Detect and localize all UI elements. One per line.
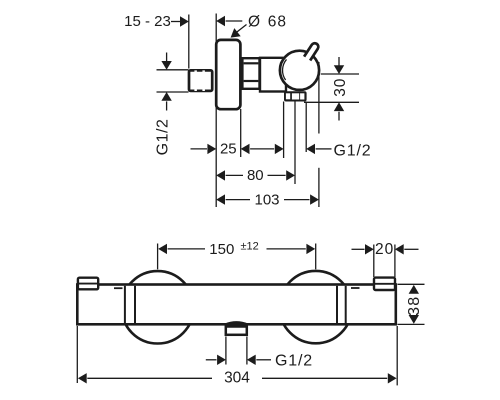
knob lever tab xyxy=(304,43,318,60)
extension line escutcheon front face x=216.2 xyxy=(215,14,217,208)
extension line outlet axis x=295 xyxy=(294,102,296,185)
svg-text:103: 103 xyxy=(254,191,279,208)
knob face arc xyxy=(283,59,287,80)
extension line left circle centre x=157.6 xyxy=(157,244,159,270)
dimension 30 xyxy=(304,57,359,121)
extension line knob edge x=318.9 lower xyxy=(318,168,320,207)
svg-text:68: 68 xyxy=(268,14,287,31)
left bracket dash xyxy=(114,287,123,289)
svg-text:25: 25 xyxy=(220,141,237,158)
extension lines bottom outlet xyxy=(225,337,227,365)
outlet nut (top view) xyxy=(284,91,307,101)
right end cap (20 mm) xyxy=(374,278,395,290)
left wall escutcheon circle xyxy=(121,271,193,343)
union thread marks xyxy=(194,70,205,91)
valve body xyxy=(260,58,286,92)
dimension 150 +-12 xyxy=(158,240,315,257)
extension line right circle centre x=315.7 xyxy=(315,244,317,270)
left end cap xyxy=(78,278,98,290)
escutcheon (top view) xyxy=(216,40,240,109)
svg-text:G1/2: G1/2 xyxy=(275,352,313,369)
svg-text:38: 38 xyxy=(406,296,423,316)
dimension G1/2 right (outlet thread) xyxy=(306,143,371,160)
control knob Ø68 xyxy=(280,51,319,90)
extension line escutcheon rear x=240.7 xyxy=(240,109,242,157)
mixer bar body xyxy=(77,285,396,325)
dimension 80 xyxy=(216,167,295,184)
extension line knob edge x=318.9 upper xyxy=(318,62,320,134)
extension line bar left x=77.3 xyxy=(76,326,78,383)
svg-text:Ø: Ø xyxy=(248,14,260,31)
label Ø68 with leader arrow xyxy=(231,14,287,38)
dimension 25 xyxy=(191,141,284,158)
svg-text:150: 150 xyxy=(209,241,234,258)
extension line outlet left x=283.6 xyxy=(283,102,285,159)
svg-text:±12: ±12 xyxy=(241,240,259,252)
dimension 15-23 xyxy=(124,13,242,30)
wall union G1/2 (top view) xyxy=(189,70,212,91)
extension line bar right x=397.2 xyxy=(396,326,398,385)
svg-text:G1/2: G1/2 xyxy=(155,119,172,156)
svg-text:304: 304 xyxy=(224,369,250,386)
extension line outlet right x=306.2 xyxy=(305,102,307,153)
svg-text:20: 20 xyxy=(375,241,394,258)
left joint lines xyxy=(124,286,126,323)
right bracket dash xyxy=(351,287,360,289)
dimension G1/2 bottom outlet xyxy=(206,352,313,369)
dimension 103 xyxy=(216,191,319,208)
dimension 20 xyxy=(352,241,419,258)
extension lines for 20 dimension xyxy=(373,245,375,278)
svg-text:15 - 23: 15 - 23 xyxy=(124,13,171,30)
right wall escutcheon circle xyxy=(280,271,352,343)
dimension 304 xyxy=(78,369,397,386)
bottom outlet nut shoulder arc xyxy=(225,322,248,324)
right joint lines xyxy=(336,286,338,323)
svg-text:G1/2: G1/2 xyxy=(334,143,372,160)
connection nut xyxy=(242,58,259,89)
extension line wall plane x=185.9 xyxy=(188,15,190,69)
dimension G1/2 left (wall union thread) xyxy=(155,53,189,156)
svg-text:80: 80 xyxy=(247,167,264,184)
bottom outlet (shower hose connection) xyxy=(226,327,247,335)
svg-text:30: 30 xyxy=(332,78,349,97)
dimension 38 xyxy=(398,284,425,324)
